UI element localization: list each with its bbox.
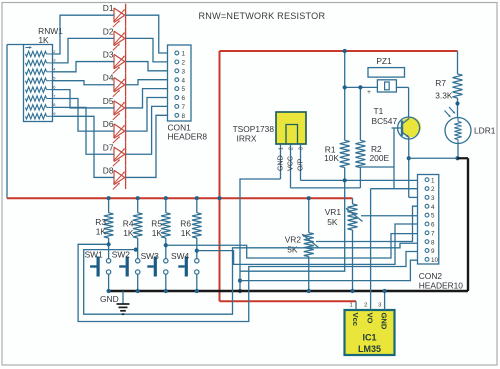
svg-text:D8: D8	[103, 165, 114, 175]
svg-text:TSOP1738: TSOP1738	[233, 124, 275, 134]
svg-text:D6: D6	[103, 119, 114, 129]
svg-text:1K: 1K	[181, 228, 192, 238]
svg-text:2: 2	[431, 186, 435, 193]
svg-text:GND: GND	[380, 313, 389, 330]
svg-text:VCC: VCC	[287, 156, 295, 171]
svg-text:T1: T1	[374, 106, 384, 116]
svg-text:3: 3	[378, 303, 381, 309]
svg-text:IC1: IC1	[362, 333, 376, 343]
svg-text:RNW=NETWORK RESISTOR: RNW=NETWORK RESISTOR	[199, 11, 326, 21]
svg-text:3.3K: 3.3K	[435, 91, 453, 101]
svg-text:3: 3	[299, 147, 305, 150]
svg-text:SW1: SW1	[85, 249, 103, 259]
svg-text:VR2: VR2	[285, 235, 302, 245]
svg-text:3: 3	[431, 195, 435, 202]
svg-text:8: 8	[431, 239, 435, 246]
svg-text:LM35: LM35	[358, 344, 381, 354]
svg-text:1: 1	[182, 51, 186, 58]
svg-text:1: 1	[431, 177, 435, 184]
svg-text:6: 6	[431, 222, 435, 229]
svg-text:SW4: SW4	[171, 251, 189, 261]
svg-text:HEADER8: HEADER8	[168, 132, 208, 142]
svg-text:5: 5	[431, 213, 435, 220]
svg-text:1: 1	[350, 303, 353, 309]
svg-text:10: 10	[431, 257, 439, 264]
svg-text:PZ1: PZ1	[376, 56, 392, 66]
svg-text:GND: GND	[100, 294, 119, 304]
svg-text:LDR1: LDR1	[474, 126, 496, 136]
svg-text:1K: 1K	[38, 35, 49, 45]
svg-text:VR1: VR1	[325, 207, 342, 217]
svg-text:D5: D5	[103, 96, 114, 106]
svg-text:2: 2	[182, 60, 186, 67]
svg-text:CON2: CON2	[419, 271, 443, 281]
svg-text:SW2: SW2	[112, 249, 130, 259]
svg-text:2: 2	[289, 147, 295, 150]
svg-text:200E: 200E	[370, 153, 390, 163]
svg-text:O/P: O/P	[297, 159, 305, 171]
svg-text:4: 4	[182, 77, 186, 84]
svg-text:Vcc: Vcc	[351, 313, 360, 327]
svg-text:VO: VO	[366, 313, 375, 324]
svg-text:3: 3	[182, 68, 186, 75]
svg-text:BC547: BC547	[372, 116, 398, 126]
svg-text:1K: 1K	[123, 228, 134, 238]
svg-text:6: 6	[182, 95, 186, 102]
svg-text:+: +	[367, 89, 371, 96]
svg-text:D3: D3	[103, 50, 114, 60]
svg-text:GND: GND	[277, 155, 285, 171]
svg-text:9: 9	[431, 248, 435, 255]
svg-text:4: 4	[431, 204, 435, 211]
svg-text:5K: 5K	[287, 245, 298, 255]
svg-text:5: 5	[182, 86, 186, 93]
svg-text:1K: 1K	[96, 226, 107, 236]
svg-text:D4: D4	[103, 73, 114, 83]
svg-text:D7: D7	[103, 142, 114, 152]
svg-text:D2: D2	[103, 26, 114, 36]
svg-text:1: 1	[279, 147, 285, 150]
svg-text:8: 8	[182, 113, 186, 120]
svg-text:HEADER10: HEADER10	[419, 281, 464, 291]
svg-text:D1: D1	[103, 3, 114, 13]
svg-text:SW3: SW3	[141, 251, 159, 261]
svg-text:R7: R7	[435, 78, 446, 88]
svg-text:2: 2	[364, 303, 367, 309]
svg-text:7: 7	[182, 104, 186, 111]
svg-text:IRRX: IRRX	[237, 134, 257, 144]
svg-text:7: 7	[431, 230, 435, 237]
svg-text:1K: 1K	[152, 228, 163, 238]
svg-text:10K: 10K	[324, 153, 339, 163]
svg-text:5K: 5K	[327, 217, 338, 227]
